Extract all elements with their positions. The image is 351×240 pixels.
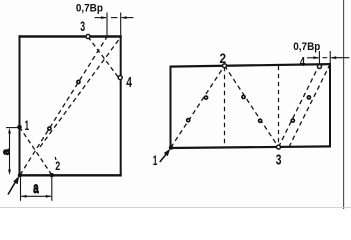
dim 0,7Bp right line and arrows <box>307 57 318 59</box>
torch circles seg 2-3 <box>241 95 246 100</box>
torch circles seg 1-2 <box>186 118 191 123</box>
corner node right <box>169 145 173 149</box>
plate outline left <box>19 35 122 38</box>
marking line from 3 up <box>278 66 280 147</box>
point 2 node <box>50 173 54 177</box>
svg-text:2: 2 <box>220 50 227 66</box>
svg-text:1: 1 <box>25 117 30 133</box>
torch circles seg 3-4 <box>290 118 295 123</box>
faint scan line bottom <box>0 207 351 209</box>
dim 0,7Bp left line and arrows <box>95 17 107 19</box>
svg-text:3: 3 <box>80 19 85 34</box>
cut 1-2 <box>171 66 225 148</box>
cut line 1-2 <box>20 127 52 175</box>
cut line A corner to 0,7Bp point <box>20 37 107 175</box>
svg-text:1: 1 <box>153 153 158 168</box>
faint page rule right <box>343 0 345 209</box>
cut 3-4 <box>279 64 320 147</box>
svg-text:a: a <box>33 180 39 197</box>
svg-text:a: a <box>0 149 12 155</box>
dim a horizontal ext lines <box>20 178 22 201</box>
torch circle on A upper <box>76 80 81 85</box>
cut line B parallel to corner <box>40 37 121 147</box>
point 3 marker <box>86 35 90 39</box>
point 1 marker <box>17 125 22 130</box>
dim a vertical ext tick <box>6 127 20 129</box>
svg-text:4: 4 <box>300 54 306 69</box>
plate outline right <box>170 64 332 67</box>
svg-text:0,7Bp: 0,7Bp <box>76 3 103 15</box>
dim a vertical line <box>9 130 11 174</box>
point 3 marker <box>277 145 281 149</box>
cut 2-3 <box>225 66 279 147</box>
dim a horizontal line <box>21 195 51 197</box>
start arrow right corner <box>160 154 167 162</box>
marking line from 2 down <box>224 67 226 148</box>
torch circle on A lower <box>47 126 52 131</box>
dim 0,7Bp right ext lines <box>318 51 320 64</box>
svg-text:0,7Bp: 0,7Bp <box>293 41 320 53</box>
svg-text:4: 4 <box>126 75 132 91</box>
svg-text:2: 2 <box>55 161 60 173</box>
start arrow left corner <box>8 181 16 195</box>
svg-text:3: 3 <box>276 152 282 169</box>
cut parallel to corner right <box>289 64 330 147</box>
corner node <box>18 173 22 177</box>
point 4 marker <box>318 65 322 69</box>
point 4 marker <box>118 76 122 80</box>
dim 0,7Bp left ext lines <box>106 13 108 37</box>
cut line 3-4 <box>88 37 120 80</box>
point 2 marker <box>223 64 227 68</box>
